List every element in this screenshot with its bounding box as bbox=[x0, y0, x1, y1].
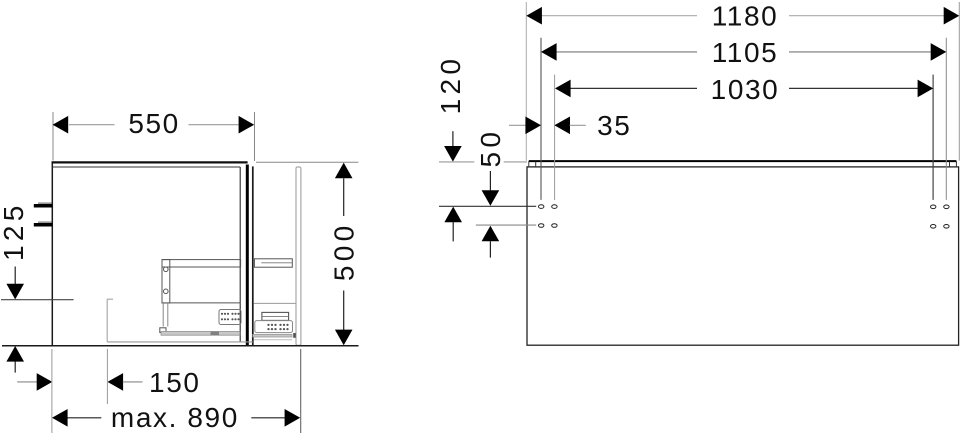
svg-text:550: 550 bbox=[128, 108, 180, 139]
svg-text:35: 35 bbox=[597, 110, 631, 141]
svg-text:120: 120 bbox=[435, 55, 466, 115]
svg-text:1105: 1105 bbox=[712, 37, 779, 68]
svg-text:1030: 1030 bbox=[711, 74, 780, 105]
svg-text:150: 150 bbox=[149, 367, 201, 398]
svg-text:1180: 1180 bbox=[712, 0, 779, 31]
svg-text:500: 500 bbox=[328, 221, 359, 281]
svg-text:max. 890: max. 890 bbox=[111, 402, 239, 433]
svg-text:125: 125 bbox=[0, 201, 29, 261]
svg-text:50: 50 bbox=[475, 128, 506, 168]
